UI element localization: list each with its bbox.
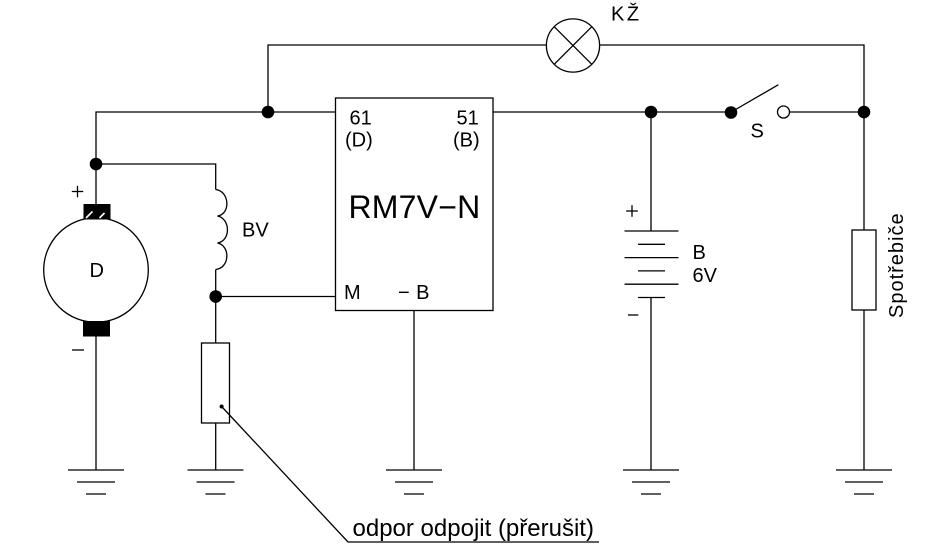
svg-text:KŽ: KŽ <box>611 3 642 26</box>
resistor (odpor) <box>202 343 230 423</box>
wire: main bus y=112 from generator column to regulator box <box>96 112 336 164</box>
ground: under resistor <box>188 470 244 494</box>
wire: inductor bottom to M node <box>215 270 217 297</box>
svg-text:D: D <box>90 260 104 282</box>
wire: -B pin down to ground <box>413 311 415 471</box>
ground: under -B pin <box>386 470 442 494</box>
junction: battery node <box>645 106 658 119</box>
svg-text:BV: BV <box>242 220 269 242</box>
svg-text:6V: 6V <box>693 265 718 287</box>
wire: generator - brush to ground <box>95 337 97 471</box>
switch S pole junction <box>725 106 738 119</box>
junction: right rail node <box>858 106 871 119</box>
wire: resistor to ground <box>215 423 217 470</box>
svg-text:−B: −B <box>398 282 436 304</box>
junction: bus / lamp riser <box>262 106 275 119</box>
wire: M node to regulator pin M <box>216 296 336 298</box>
svg-text:61: 61 <box>350 108 372 130</box>
polarity + of generator <box>72 186 83 198</box>
battery B 6V <box>625 231 679 298</box>
polarity - of generator <box>72 349 84 351</box>
wire: + node down to brush <box>95 164 97 206</box>
wire: lamp right lead to right rail <box>600 45 864 112</box>
ground: under load <box>836 470 892 494</box>
svg-text:Spotřebiče: Spotřebiče <box>886 212 908 318</box>
wire: right rail down to load <box>863 112 865 230</box>
wire: battery bottom to ground <box>650 298 652 471</box>
svg-text:S: S <box>751 121 764 143</box>
svg-text:B: B <box>693 242 706 264</box>
switch S blade <box>733 85 778 111</box>
svg-text:(B): (B) <box>453 130 480 152</box>
svg-text:(D): (D) <box>345 130 373 152</box>
junction: generator + node <box>90 158 103 171</box>
wire: M node down to resistor <box>215 297 217 344</box>
svg-text:M: M <box>344 282 361 304</box>
wire: battery node down to battery top plate <box>650 112 652 231</box>
junction: M node <box>209 290 222 303</box>
generator D (dynamo) <box>44 204 149 337</box>
wire: bus from pin 51 to switch <box>493 111 731 113</box>
polarity + of battery <box>626 205 638 217</box>
wire: switch to right rail <box>790 111 865 113</box>
svg-text:51: 51 <box>457 108 479 130</box>
wire: top bus left segment to lamp <box>268 45 546 112</box>
switch S open terminal <box>778 106 790 118</box>
leader dot on resistor <box>220 405 224 409</box>
ground: under battery <box>623 470 679 494</box>
inductor BV <box>216 190 228 270</box>
wire: + node to inductor top <box>96 164 216 190</box>
lamp KZ <box>546 19 599 72</box>
regulator box RM7V-N <box>336 98 494 311</box>
load Spotrebice <box>852 230 876 310</box>
ground: under generator <box>68 470 124 494</box>
svg-text:odpor odpojit (přerušit): odpor odpojit (přerušit) <box>353 515 594 542</box>
wire: load to ground <box>863 310 865 470</box>
polarity - of battery <box>628 314 638 316</box>
leader line to annotation <box>222 407 599 543</box>
svg-text:RM7V−N: RM7V−N <box>349 189 481 225</box>
